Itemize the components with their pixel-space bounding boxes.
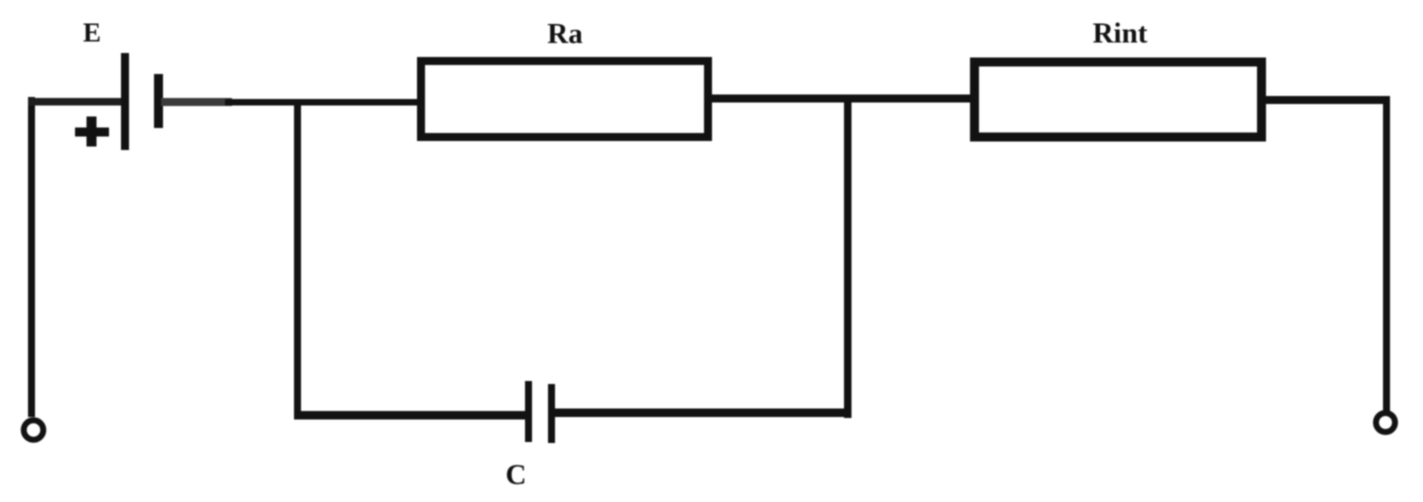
wire: battery output segment (gray)	[161, 98, 232, 106]
wire: to resistor Ra	[225, 99, 417, 106]
wire: right vertical down to positive terminal	[1383, 100, 1390, 411]
wire: bottom-right horizontal (capacitor to node B)	[552, 409, 852, 418]
battery E short plate	[154, 74, 163, 128]
wire: Rint to top-right corner	[1266, 96, 1390, 104]
svg-text:Rint: Rint	[1093, 17, 1148, 49]
node B branch wire (vertical, to capacitor loop)	[844, 98, 852, 418]
wire: left vertical from battery to negative terminal	[28, 97, 35, 417]
svg-text:Ra: Ra	[547, 18, 583, 50]
svg-text:E: E	[83, 17, 101, 47]
capacitor C left plate	[525, 381, 532, 442]
svg-text:C: C	[506, 459, 527, 491]
node A branch wire (vertical, to capacitor loop)	[294, 101, 301, 419]
wire: bottom-left horizontal (node A to capacitor)	[294, 411, 528, 420]
resistor Rint	[975, 62, 1262, 137]
wire: Ra to node B	[712, 95, 970, 103]
terminal circle right	[1376, 413, 1395, 432]
terminal circle left	[24, 420, 44, 440]
battery polarity plus sign	[75, 117, 109, 147]
wire: top-left horizontal into battery	[28, 98, 122, 106]
capacitor C right plate	[548, 384, 555, 443]
battery E long plate	[121, 53, 129, 150]
resistor Ra	[421, 61, 708, 137]
